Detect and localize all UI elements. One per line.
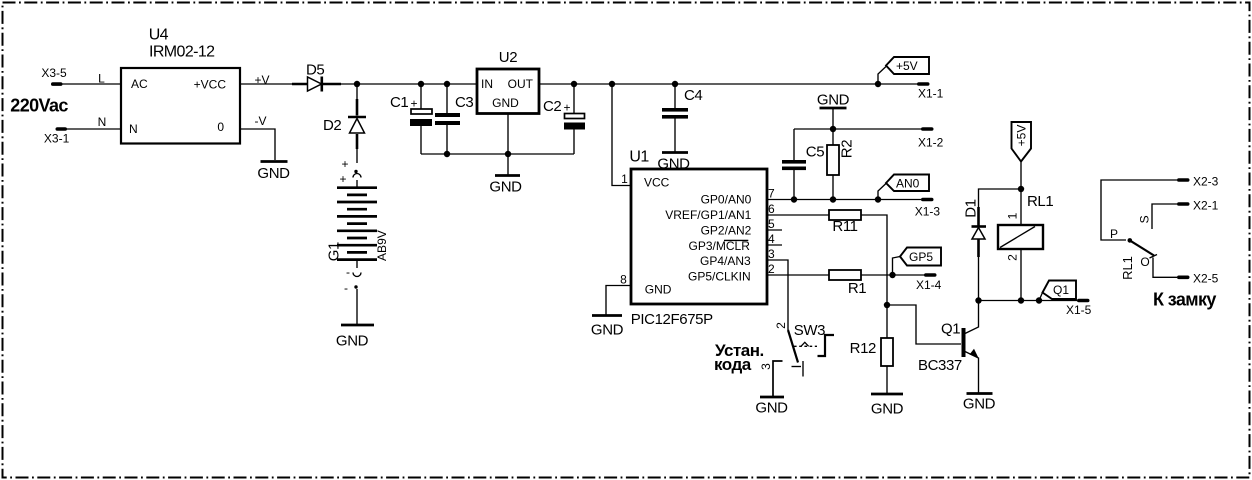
svg-text:кода: кода: [714, 355, 752, 374]
svg-text:X1-5: X1-5: [1066, 303, 1092, 317]
svg-text:X2-5: X2-5: [1193, 272, 1219, 286]
svg-text:GND: GND: [336, 333, 369, 350]
svg-text:C3: C3: [455, 94, 473, 111]
svg-text:2: 2: [768, 262, 775, 276]
svg-text:-V: -V: [255, 114, 267, 128]
svg-text:RL1: RL1: [1027, 193, 1053, 210]
svg-text:OUT: OUT: [508, 77, 534, 91]
svg-text:К замку: К замку: [1153, 289, 1216, 309]
svg-text:4: 4: [768, 232, 775, 246]
svg-text:U2: U2: [499, 49, 517, 66]
svg-text:VCC: VCC: [644, 176, 670, 190]
svg-text:Q1: Q1: [1053, 283, 1069, 297]
svg-text:-: -: [346, 265, 350, 279]
svg-text:AB9V: AB9V: [375, 230, 389, 261]
svg-text:X2-3: X2-3: [1193, 175, 1219, 189]
svg-text:GP3/MCLR: GP3/MCLR: [689, 239, 751, 253]
svg-text:3: 3: [759, 363, 773, 370]
svg-text:GND: GND: [591, 322, 624, 339]
svg-text:BC337: BC337: [918, 357, 962, 374]
svg-text:GP0/AN0: GP0/AN0: [701, 193, 752, 207]
svg-text:+V: +V: [255, 73, 270, 87]
svg-text:7: 7: [768, 187, 775, 201]
svg-text:C1: C1: [390, 94, 408, 111]
svg-text:C2: C2: [543, 98, 561, 115]
svg-text:X2-1: X2-1: [1193, 199, 1219, 213]
svg-text:D2: D2: [323, 117, 341, 134]
svg-text:X1-2: X1-2: [918, 136, 944, 150]
svg-text:-: -: [344, 281, 348, 295]
svg-text:IRM02-12: IRM02-12: [149, 43, 215, 60]
svg-text:P: P: [1110, 227, 1118, 241]
svg-text:GND: GND: [755, 400, 788, 417]
svg-text:VREF/GP1/AN1: VREF/GP1/AN1: [665, 208, 751, 222]
svg-text:Q1: Q1: [941, 321, 960, 338]
svg-text:+: +: [563, 101, 570, 115]
svg-text:X1-4: X1-4: [916, 278, 942, 292]
svg-text:GND: GND: [492, 96, 519, 110]
svg-text:N: N: [129, 122, 138, 136]
svg-text:X1-1: X1-1: [918, 87, 944, 101]
svg-text:IN: IN: [481, 77, 493, 91]
svg-text:AC: AC: [131, 77, 148, 91]
svg-text:+VCC: +VCC: [194, 78, 227, 92]
svg-text:3: 3: [768, 247, 775, 261]
svg-text:PIC12F675P: PIC12F675P: [631, 311, 713, 328]
svg-text:220Vac: 220Vac: [10, 96, 68, 116]
svg-text:8: 8: [620, 273, 627, 287]
svg-text:C4: C4: [684, 87, 702, 104]
svg-text:GND: GND: [645, 283, 672, 297]
svg-text:GND: GND: [489, 179, 522, 196]
svg-text:6: 6: [768, 202, 775, 216]
svg-text:GND: GND: [817, 92, 850, 109]
svg-text:D1: D1: [963, 199, 980, 217]
svg-text:+5V: +5V: [1015, 125, 1029, 147]
svg-text:1: 1: [1006, 212, 1020, 219]
svg-text:GND: GND: [257, 165, 290, 182]
svg-text:G1: G1: [325, 242, 342, 261]
svg-text:R12: R12: [850, 340, 876, 357]
svg-text:AN0: AN0: [896, 177, 920, 191]
svg-text:+5V: +5V: [896, 59, 918, 73]
svg-text:RL1: RL1: [1120, 256, 1135, 280]
svg-text:GP2/AN2: GP2/AN2: [701, 224, 752, 238]
svg-text:+: +: [339, 172, 346, 186]
svg-text:R2: R2: [839, 140, 856, 158]
svg-text:U4: U4: [149, 27, 169, 44]
svg-text:X3-1: X3-1: [44, 131, 70, 145]
svg-text:R11: R11: [832, 218, 857, 235]
svg-text:0: 0: [217, 120, 224, 134]
svg-text:SW3: SW3: [794, 322, 825, 339]
svg-text:GND: GND: [963, 396, 996, 413]
svg-text:1: 1: [621, 172, 628, 186]
svg-text:S: S: [1138, 215, 1152, 223]
svg-text:R1: R1: [848, 280, 866, 297]
svg-text:2: 2: [1006, 254, 1020, 261]
svg-text:D5: D5: [306, 61, 324, 78]
svg-text:U1: U1: [629, 148, 649, 165]
svg-text:N: N: [98, 115, 107, 129]
svg-text:2: 2: [774, 322, 788, 329]
svg-text:5: 5: [768, 217, 775, 231]
svg-text:+: +: [341, 157, 348, 171]
svg-text:C5: C5: [806, 143, 824, 160]
svg-text:O: O: [1140, 255, 1149, 269]
svg-text:GP4/AN3: GP4/AN3: [700, 254, 751, 268]
svg-text:GND: GND: [871, 401, 904, 418]
svg-text:+: +: [410, 97, 417, 111]
svg-text:X1-3: X1-3: [915, 205, 941, 219]
svg-text:GP5: GP5: [909, 250, 933, 264]
svg-text:GP5/CLKIN: GP5/CLKIN: [688, 270, 751, 284]
svg-text:X3-5: X3-5: [41, 66, 67, 80]
